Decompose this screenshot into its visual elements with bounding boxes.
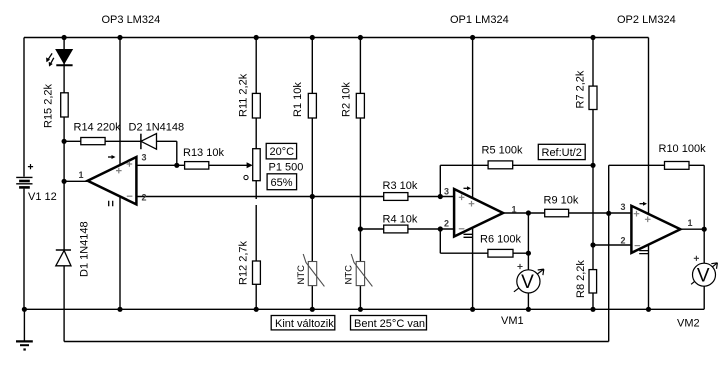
svg-text:R12 2,7k: R12 2,7k <box>238 240 250 285</box>
wire OP2 pin 2 <box>593 244 631 246</box>
label box Kint változik <box>271 316 335 331</box>
resistor R15 2,2k <box>43 83 69 128</box>
svg-text:D2 1N4148: D2 1N4148 <box>129 122 185 134</box>
label box Bent 25°C van <box>351 316 427 331</box>
resistor R4 10k <box>383 214 418 233</box>
resistor R3 10k <box>383 180 418 200</box>
svg-text:65%: 65% <box>271 177 293 189</box>
svg-text:V: V <box>521 272 534 293</box>
wire R10 positive feedback loop <box>609 165 705 229</box>
resistor R13 10k <box>183 147 224 169</box>
label box Ref:Ut/2 <box>538 144 585 159</box>
svg-text:VM2: VM2 <box>677 318 700 330</box>
thermistor NTC2 <box>344 254 373 286</box>
svg-text:R9 10k: R9 10k <box>544 195 579 207</box>
svg-text:R6 100k: R6 100k <box>480 234 521 246</box>
svg-text:NTC: NTC <box>296 265 307 285</box>
wire OP2 power pin 4 <box>648 38 650 215</box>
op-amp OP1 <box>444 14 517 237</box>
svg-text:R13 10k: R13 10k <box>183 147 224 159</box>
wire OP1 power pin 11 <box>472 228 474 309</box>
wire OP3 power pin 11 <box>119 196 121 309</box>
wire ground stem <box>23 309 25 341</box>
potentiometer P1 500 <box>244 149 303 181</box>
svg-text:2: 2 <box>621 236 626 246</box>
resistor R11 2,2k <box>238 73 261 118</box>
wire left rail upper (battery +) <box>23 38 25 177</box>
resistor R7 2,2k <box>575 70 598 109</box>
svg-text:V: V <box>697 265 710 286</box>
resistor R10 100k <box>659 143 707 169</box>
svg-text:OP3 LM324: OP3 LM324 <box>102 14 161 26</box>
svg-text:R11 2,2k: R11 2,2k <box>238 73 250 117</box>
svg-text:R14 220k: R14 220k <box>74 122 122 134</box>
svg-text:R1 10k: R1 10k <box>292 82 304 117</box>
label box 20°C <box>266 143 296 159</box>
wire OP3 output pin 1 <box>64 180 90 182</box>
diode D2 1N4148 <box>129 122 185 150</box>
op-amp OP2 <box>617 14 693 254</box>
wire R11/P1/R12 column (with hop gap) <box>255 38 257 310</box>
wire OP1 pin2 to R6 feedback <box>440 229 528 253</box>
resistor R12 2,7k <box>238 240 261 285</box>
battery V1 12 <box>16 164 57 203</box>
svg-text:20°C: 20°C <box>270 146 295 158</box>
voltmeter VM2 <box>677 256 717 330</box>
svg-text:NTC: NTC <box>344 265 355 285</box>
wire VM1 bottom <box>527 293 529 309</box>
wire R2/NTC2 column <box>359 38 361 310</box>
wire Ref column R7/R8 <box>592 38 594 310</box>
wire bottom outer feedback run <box>64 213 609 341</box>
wire OP1 pin3 to R5 to Ref node <box>440 165 593 196</box>
wiper arrowhead <box>247 162 253 168</box>
op-amp OP3 (mirrored, output left) <box>79 14 161 206</box>
svg-text:R10 100k: R10 100k <box>659 143 707 155</box>
ground <box>16 341 33 350</box>
svg-text:OP2 LM324: OP2 LM324 <box>617 14 676 26</box>
wire OP1 output through R9 to OP2 pin3 <box>503 212 631 214</box>
svg-text:1: 1 <box>512 205 517 215</box>
LED <box>46 50 73 67</box>
svg-text:R3 10k: R3 10k <box>383 180 418 192</box>
wire LED/R15/D1 column <box>63 38 65 342</box>
svg-text:R15 2,2k: R15 2,2k <box>43 83 55 128</box>
svg-text:V1 12: V1 12 <box>28 191 57 203</box>
svg-text:R5 100k: R5 100k <box>482 145 523 157</box>
svg-text:Ref:Ut/2: Ref:Ut/2 <box>542 147 582 159</box>
wire OP1 power pin 4 <box>472 38 474 198</box>
svg-text:2: 2 <box>444 219 449 229</box>
wire left rail lower (battery -) <box>23 189 25 310</box>
svg-text:D1 1N4148: D1 1N4148 <box>79 221 91 277</box>
svg-text:OP1 LM324: OP1 LM324 <box>450 14 509 26</box>
svg-text:Kint változik: Kint változik <box>275 318 334 330</box>
label box 65% <box>267 174 297 190</box>
svg-text:R2 10k: R2 10k <box>341 82 353 117</box>
svg-text:3: 3 <box>142 153 147 163</box>
wire OP3 pin 3 through R13 to P1 wiper <box>136 164 248 166</box>
wire R1/NTC1 column <box>311 38 313 310</box>
wire top rail +12V <box>24 37 649 39</box>
wire OP2 power pin 11 <box>648 245 650 310</box>
svg-text:R8 2,2k: R8 2,2k <box>575 260 587 298</box>
svg-text:P1 500: P1 500 <box>269 162 304 174</box>
svg-text:R4 10k: R4 10k <box>383 214 418 226</box>
resistor R14 220k <box>74 122 122 145</box>
thermistor NTC1 <box>296 254 324 286</box>
resistor R8 2,2k <box>575 260 597 298</box>
wire OP3 pin 2 net to OP1 pin 3 (through R3) <box>136 196 454 198</box>
resistor R5 100k <box>482 145 523 169</box>
svg-text:3: 3 <box>444 187 449 197</box>
wire R4 row <box>360 228 454 230</box>
svg-text:2: 2 <box>142 193 147 203</box>
resistor R6 100k <box>480 234 521 258</box>
resistor R2 10k <box>341 82 365 118</box>
wire OP3 power pin 4 <box>119 38 121 166</box>
svg-text:Bent 25°C van: Bent 25°C van <box>354 318 425 330</box>
svg-text:1: 1 <box>688 218 693 228</box>
resistor R9 10k <box>544 195 579 217</box>
wire OP2 output to VM2 <box>680 229 704 309</box>
svg-text:VM1: VM1 <box>501 315 524 327</box>
voltmeter VM1 <box>501 264 544 327</box>
svg-text:3: 3 <box>621 202 626 212</box>
resistor R1 10k <box>292 82 316 118</box>
diode D1 1N4148 <box>56 221 91 277</box>
wire R14/D2 row to node <box>64 141 177 165</box>
svg-text:R7 2,2k: R7 2,2k <box>575 70 587 108</box>
wire OP1 output down to R6/VM1 <box>527 213 529 270</box>
wire bottom ground rail <box>24 308 704 310</box>
svg-text:1: 1 <box>79 170 84 180</box>
